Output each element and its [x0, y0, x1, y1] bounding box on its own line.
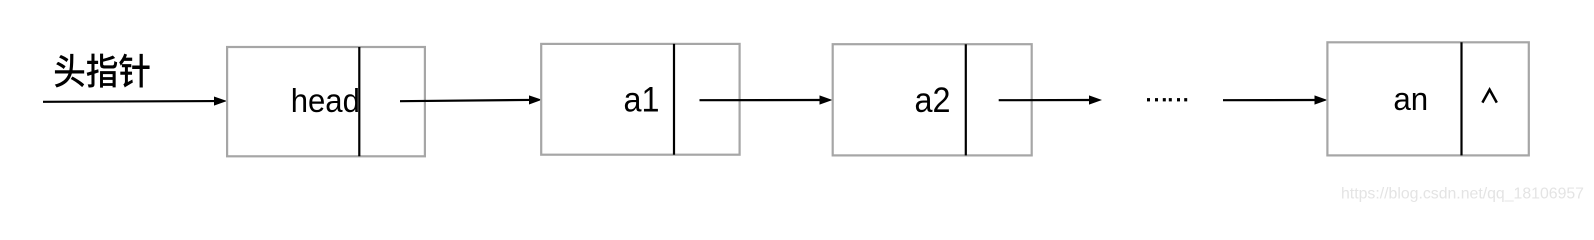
wire arrow-a1-to-a2: [700, 95, 833, 104]
wire arrow-dots-to-an: [1223, 95, 1328, 104]
wire arrow-a2-to-dots: [999, 95, 1102, 104]
svg-text:https://blog.csdn.net/qq_18106: https://blog.csdn.net/qq_18106957: [1341, 186, 1584, 203]
null terminator caret ^: [1482, 90, 1496, 103]
wire arrow-head-to-a1: [400, 95, 542, 104]
node head: pointer-field divider: [358, 47, 360, 156]
ellipsis dots ......: [1147, 98, 1187, 101]
node a2: pointer-field divider: [965, 44, 967, 155]
node an: pointer-field divider: [1460, 42, 1462, 155]
node a2: cell rectangle: [833, 44, 1032, 155]
node an: cell rectangle: [1327, 42, 1528, 155]
svg-text:head: head: [291, 82, 360, 119]
svg-text:an: an: [1393, 80, 1428, 117]
svg-text:a1: a1: [624, 80, 660, 120]
node head: cell rectangle: [227, 47, 425, 156]
node a1: pointer-field divider: [673, 44, 675, 155]
wire arrow-head-pointer: [43, 96, 227, 105]
label 头指针 (head pointer), drawn as glyph paths: [55, 54, 150, 88]
node a1: cell rectangle: [541, 44, 739, 155]
svg-text:a2: a2: [915, 80, 951, 120]
